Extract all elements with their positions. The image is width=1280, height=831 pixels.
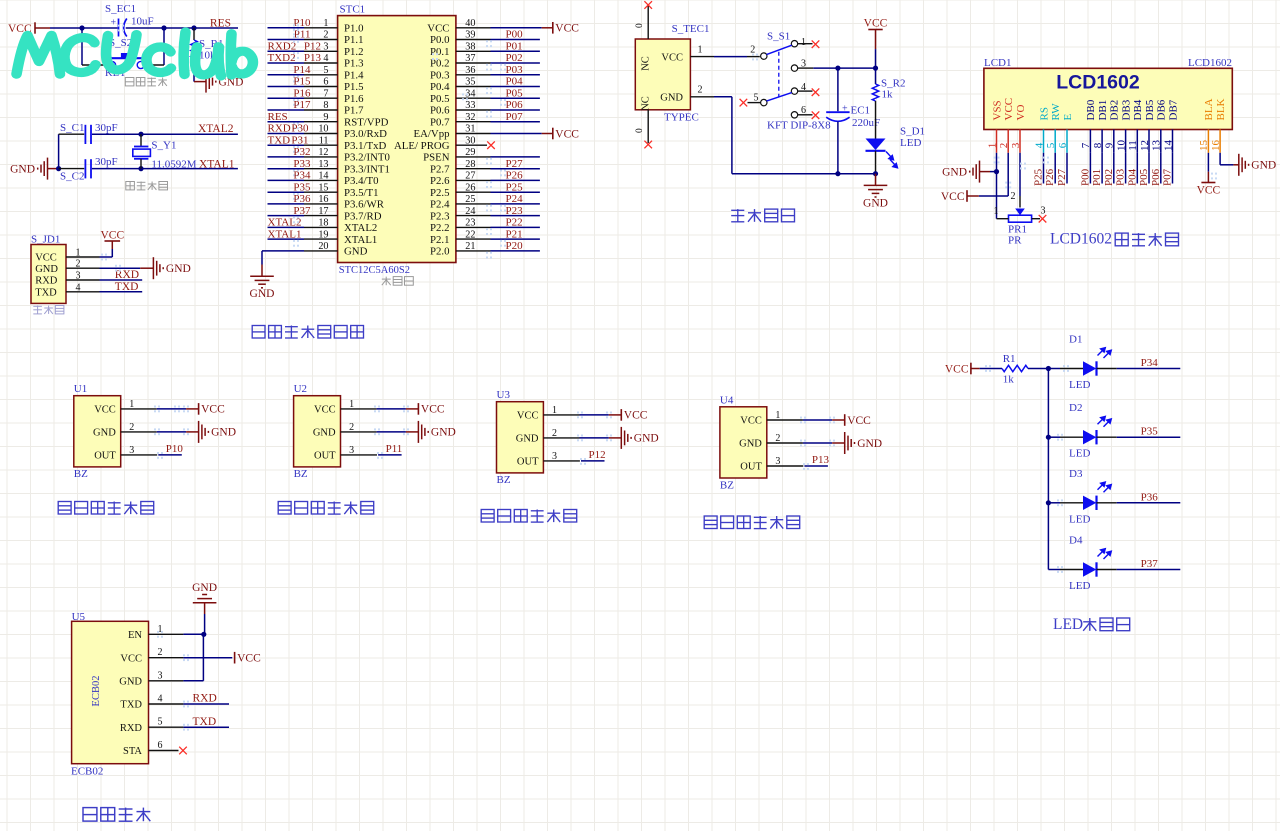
svg-text:VCC: VCC xyxy=(555,128,579,140)
resistor S_R2 xyxy=(872,68,878,138)
svg-text:LED: LED xyxy=(1069,513,1090,525)
junction xyxy=(1046,435,1051,440)
LCD pin 1 stub xyxy=(996,130,998,153)
svg-text:VCC: VCC xyxy=(517,411,539,422)
svg-text:P0.7: P0.7 xyxy=(430,116,450,128)
LED D1 xyxy=(1083,348,1111,376)
svg-text:P05: P05 xyxy=(506,87,524,99)
svg-text:DB4: DB4 xyxy=(1132,99,1144,120)
power port VCC xyxy=(552,22,554,34)
svg-text:P04: P04 xyxy=(506,76,524,88)
junction xyxy=(835,66,840,71)
svg-text:OUT: OUT xyxy=(314,451,336,462)
circuit title danpianji zuixiao xitong xyxy=(252,326,363,339)
svg-text:KFT DIP-8X8: KFT DIP-8X8 xyxy=(767,120,831,132)
label hongwai bizhang mokuai U2 xyxy=(278,502,374,515)
svg-text:10uF: 10uF xyxy=(131,16,154,28)
wire MCU pin 16 xyxy=(268,203,338,205)
svg-text:DB1: DB1 xyxy=(1097,100,1109,121)
circuit title LED deng dianlu xyxy=(1053,616,1130,633)
wire MCU pin 23 xyxy=(456,226,540,228)
junction xyxy=(138,132,143,137)
wire pin3 RXD xyxy=(66,279,142,281)
svg-text:VCC: VCC xyxy=(427,23,449,35)
svg-text:P1.3: P1.3 xyxy=(344,58,364,70)
capacitor S_EC1 polarized body xyxy=(111,18,127,37)
svg-text:TXD: TXD xyxy=(268,134,291,146)
wire MCU pin 9 xyxy=(268,121,338,123)
svg-text:BLA: BLA xyxy=(1203,98,1215,120)
wire LED D3 to P36 xyxy=(1097,502,1181,504)
svg-text:P0.6: P0.6 xyxy=(430,105,450,117)
svg-text:RXD: RXD xyxy=(268,123,291,135)
svg-text:GND: GND xyxy=(250,288,275,300)
svg-text:RS: RS xyxy=(1038,107,1050,120)
svg-text:S_C1: S_C1 xyxy=(60,122,84,134)
svg-text:P00: P00 xyxy=(1079,168,1091,186)
wire pin2 to GND xyxy=(66,267,153,269)
power port VCC xyxy=(198,403,200,415)
svg-text:P24: P24 xyxy=(506,193,524,205)
wire MCU pin 15 xyxy=(268,191,338,193)
svg-text:P1.4: P1.4 xyxy=(344,70,364,82)
svg-text:S_C2: S_C2 xyxy=(60,171,84,183)
svg-text:VCC: VCC xyxy=(100,230,124,242)
svg-text:0: 0 xyxy=(635,23,645,28)
LCD pin 6 stub xyxy=(1066,130,1068,153)
ground xyxy=(199,421,209,443)
svg-text:P22: P22 xyxy=(506,217,523,229)
svg-text:DB3: DB3 xyxy=(1120,99,1132,120)
wire MCU pin 35 xyxy=(456,86,540,88)
power port VCC (download) xyxy=(100,230,124,250)
svg-text:EA/Vpp: EA/Vpp xyxy=(414,128,450,140)
svg-text:XTAL2: XTAL2 xyxy=(268,217,302,229)
wire U3 pin3 P12 xyxy=(543,460,604,462)
svg-text:TXD: TXD xyxy=(120,700,142,711)
svg-text:P0.4: P0.4 xyxy=(430,81,450,93)
LED S_D1 xyxy=(866,139,898,174)
svg-text:1k: 1k xyxy=(882,89,894,101)
wire MCU pin 20 to ground xyxy=(262,251,338,276)
LCD pin 4 stub xyxy=(1043,130,1045,153)
svg-text:P37: P37 xyxy=(293,205,311,217)
wire LCD P00 xyxy=(1089,153,1091,184)
svg-text:GND: GND xyxy=(1251,160,1276,172)
label lanya mokuai xyxy=(83,808,150,822)
comment text anjian fuwei xyxy=(125,78,167,86)
wire MCU pin 12 xyxy=(268,156,338,158)
svg-text:LED: LED xyxy=(1069,448,1090,460)
wire LCD BLK to ground xyxy=(1220,153,1239,165)
power port VCC xyxy=(844,414,846,426)
svg-text:P30: P30 xyxy=(291,123,309,135)
connector S_TEC1 pin names xyxy=(641,52,684,110)
svg-text:P23: P23 xyxy=(506,205,524,217)
svg-text:P03: P03 xyxy=(506,64,524,76)
no-ERC marker xyxy=(644,141,652,149)
svg-text:P06: P06 xyxy=(1150,168,1162,186)
wire to LED D2 xyxy=(1048,436,1083,438)
wire MCU pin 19 xyxy=(268,238,338,240)
svg-text:P1.5: P1.5 xyxy=(344,81,364,93)
ground (LCD) xyxy=(970,161,980,183)
svg-text:3: 3 xyxy=(1041,206,1046,217)
svg-text:GND: GND xyxy=(10,163,35,175)
svg-text:P2.2: P2.2 xyxy=(430,222,450,234)
no-ERC marker pin5 xyxy=(740,99,748,107)
svg-text:P14: P14 xyxy=(293,64,311,76)
junction xyxy=(161,25,166,30)
svg-text:GND: GND xyxy=(35,264,58,275)
svg-text:ECB02: ECB02 xyxy=(91,676,102,707)
wire MCU pin 18 xyxy=(268,226,338,228)
svg-text:P25: P25 xyxy=(1033,168,1045,186)
svg-text:6: 6 xyxy=(158,740,163,751)
wire MCU pin 14 xyxy=(268,179,338,181)
svg-text:LED: LED xyxy=(1053,616,1083,633)
svg-text:LED: LED xyxy=(1069,379,1090,391)
module U2 body xyxy=(294,396,341,467)
svg-text:P31: P31 xyxy=(291,134,308,146)
svg-text:P1.2: P1.2 xyxy=(344,46,364,58)
svg-text:P05: P05 xyxy=(1138,168,1150,186)
wire to push button right xyxy=(145,28,165,65)
wire LCD VSS to ground xyxy=(980,153,997,219)
LCD pin 10 stub xyxy=(1125,130,1127,153)
wire LCD VO pin3 to potentiometer xyxy=(1011,153,1021,208)
label hongwai bizhang mokuai U4 xyxy=(704,516,800,529)
svg-text:GND: GND xyxy=(863,197,888,209)
power port VCC xyxy=(417,403,419,415)
svg-text:VCC: VCC xyxy=(847,415,871,427)
svg-text:P12: P12 xyxy=(304,41,321,53)
svg-text:P3.2/INT0: P3.2/INT0 xyxy=(344,152,390,164)
no-ERC marker U5 pin6 xyxy=(179,747,187,755)
wire MCU pin 6 xyxy=(268,86,338,88)
svg-text:P01: P01 xyxy=(506,41,523,53)
svg-text:1: 1 xyxy=(801,37,806,48)
wire to push button left xyxy=(82,28,108,65)
no-ERC marker pin4 xyxy=(812,88,820,96)
wire LCD P07 xyxy=(1172,153,1174,184)
circuit title dianyuan dianlu xyxy=(731,209,794,222)
LCD pin 12 stub xyxy=(1148,130,1150,153)
svg-text:P36: P36 xyxy=(293,193,311,205)
svg-text:D1: D1 xyxy=(1069,334,1082,346)
power port VCC (LED circuit) xyxy=(945,363,980,376)
wire U5 GND trunk xyxy=(203,614,204,681)
svg-text:0: 0 xyxy=(635,128,645,133)
svg-text:RXD: RXD xyxy=(115,269,139,281)
svg-text:LCD1: LCD1 xyxy=(984,57,1012,69)
svg-text:VCC: VCC xyxy=(740,416,762,427)
svg-text:P2.6: P2.6 xyxy=(430,175,450,187)
svg-text:1: 1 xyxy=(158,624,163,635)
junction xyxy=(191,25,196,30)
svg-text:P1.7: P1.7 xyxy=(344,105,364,117)
svg-text:VCC: VCC xyxy=(1003,98,1015,121)
svg-text:BZ: BZ xyxy=(497,474,511,486)
ground (reset) xyxy=(194,71,243,93)
module U5 body xyxy=(72,621,149,763)
svg-text:BLK: BLK xyxy=(1215,98,1227,120)
circuit title LCD1602 xianshi dianlu xyxy=(1050,231,1179,248)
svg-text:BZ: BZ xyxy=(74,468,88,480)
svg-text:VCC: VCC xyxy=(864,18,888,30)
svg-text:VCC: VCC xyxy=(661,52,683,63)
svg-text:P10: P10 xyxy=(293,17,311,29)
svg-text:VCC: VCC xyxy=(237,653,261,665)
no-ERC marker pin1 xyxy=(812,40,820,48)
svg-text:VCC: VCC xyxy=(120,653,142,664)
svg-text:GND: GND xyxy=(660,93,683,104)
wire MCU pin 1 xyxy=(268,27,338,29)
ground (crystal) xyxy=(10,158,59,180)
svg-text:P3.4/T0: P3.4/T0 xyxy=(344,175,379,187)
ground (U5) xyxy=(192,582,217,614)
wire LED D4 to P37 xyxy=(1097,569,1181,571)
svg-text:1k: 1k xyxy=(1003,374,1015,386)
junction xyxy=(1046,366,1051,371)
svg-text:PR: PR xyxy=(1008,235,1022,247)
svg-text:VCC: VCC xyxy=(1197,185,1221,197)
svg-text:GND: GND xyxy=(942,166,967,178)
svg-text:TXD: TXD xyxy=(115,281,139,293)
wire MCU pin 27 xyxy=(456,179,540,181)
wire MCU pin 31 to VCC xyxy=(456,133,553,135)
svg-text:VCC: VCC xyxy=(314,405,336,416)
svg-text:U4: U4 xyxy=(720,394,734,406)
wire MCU pin 21 xyxy=(456,250,540,252)
svg-text:1: 1 xyxy=(698,45,703,56)
svg-text:P21: P21 xyxy=(506,228,523,240)
wire LCD P02 xyxy=(1113,153,1115,184)
svg-text:5: 5 xyxy=(158,717,163,728)
svg-text:STC1: STC1 xyxy=(340,4,366,16)
svg-text:P02: P02 xyxy=(506,52,523,64)
ground (LCD backlight) xyxy=(1239,154,1249,176)
svg-text:GND: GND xyxy=(192,582,217,594)
wire MCU pin 13 xyxy=(268,168,338,170)
push button S_S2 xyxy=(108,53,144,69)
junction xyxy=(835,171,840,176)
wire switch pin3 to VCC rail xyxy=(798,67,876,69)
no-ERC marker pin6 xyxy=(812,111,820,119)
svg-text:+: + xyxy=(111,18,117,29)
wire U3 pin1 to VCC xyxy=(543,414,621,416)
resistor R1 xyxy=(980,365,1049,371)
LCD pin 13 stub xyxy=(1160,130,1162,153)
svg-text:BZ: BZ xyxy=(720,479,734,491)
svg-text:S_EC1: S_EC1 xyxy=(105,3,136,15)
wire U1 pin3 P10 xyxy=(121,454,182,456)
svg-text:ALE/ PROG: ALE/ PROG xyxy=(394,140,450,152)
svg-text:S_JD1: S_JD1 xyxy=(31,234,60,246)
wire MCU pin 22 xyxy=(456,238,540,240)
svg-text:P3.0/RxD: P3.0/RxD xyxy=(344,128,387,140)
svg-text:P1.0: P1.0 xyxy=(344,23,364,35)
svg-text:LCD1602: LCD1602 xyxy=(1188,57,1232,69)
svg-text:P27: P27 xyxy=(1056,168,1068,186)
wire MCU pin 2 xyxy=(268,39,338,41)
wire MCU pin 5 xyxy=(268,74,338,76)
wire MCU pin 40 to VCC xyxy=(456,27,553,29)
wire U1 pin1 to VCC xyxy=(121,408,199,410)
svg-text:RST/VPD: RST/VPD xyxy=(344,116,389,128)
power port VCC xyxy=(552,128,554,140)
svg-text:30pF: 30pF xyxy=(95,156,118,168)
svg-text:GND: GND xyxy=(313,428,336,439)
svg-text:P13: P13 xyxy=(812,454,830,466)
wire MCU pin 24 xyxy=(456,215,540,217)
ground xyxy=(845,432,855,454)
ground xyxy=(418,421,428,443)
svg-text:GND: GND xyxy=(739,439,762,450)
wire U5 pin5 RXD xyxy=(149,726,230,728)
wire MCU pin 34 xyxy=(456,97,540,99)
LCD pin 7 stub xyxy=(1089,130,1091,153)
svg-text:P0.3: P0.3 xyxy=(430,70,450,82)
svg-text:DB2: DB2 xyxy=(1109,100,1121,121)
label hongwai bizhang mokuai U1 xyxy=(58,502,154,515)
wire U2 pin2 to GND xyxy=(341,431,419,433)
svg-text:P3.5/T1: P3.5/T1 xyxy=(344,187,379,199)
svg-text:P0.0: P0.0 xyxy=(430,34,450,46)
svg-text:DB5: DB5 xyxy=(1144,99,1156,120)
connector S_TEC1 top pin xyxy=(635,6,648,39)
svg-text:11.0592M: 11.0592M xyxy=(151,159,196,171)
LCD pin 14 stub xyxy=(1172,130,1174,153)
wire MCU pin 26 xyxy=(456,191,540,193)
ground (download) xyxy=(153,257,163,279)
svg-text:P02: P02 xyxy=(1103,169,1115,186)
svg-text:P0.1: P0.1 xyxy=(430,46,450,58)
svg-text:TXD: TXD xyxy=(35,287,57,298)
svg-text:P3.7/RD: P3.7/RD xyxy=(344,210,382,222)
svg-text:D3: D3 xyxy=(1069,468,1083,480)
wire RES net top xyxy=(50,27,238,29)
resistor S_R1 xyxy=(191,28,197,82)
LCD pin 3 stub xyxy=(1019,130,1021,153)
svg-text:1: 1 xyxy=(994,206,999,217)
svg-text:GND: GND xyxy=(344,246,368,258)
svg-text:XTAL1: XTAL1 xyxy=(344,234,377,246)
svg-text:P06: P06 xyxy=(506,99,524,111)
svg-text:P2.3: P2.3 xyxy=(430,210,450,222)
power port VCC (U5) xyxy=(234,652,236,664)
svg-text:P1.1: P1.1 xyxy=(344,34,364,46)
power port VCC (reset circuit) xyxy=(8,22,50,35)
svg-text:XTAL1: XTAL1 xyxy=(199,159,235,171)
svg-text:P0.5: P0.5 xyxy=(430,93,450,105)
svg-text:OUT: OUT xyxy=(517,457,539,468)
svg-text:PSEN: PSEN xyxy=(423,152,450,164)
wire LCD P25 xyxy=(1043,153,1045,184)
svg-text:TYPEC: TYPEC xyxy=(664,112,699,124)
svg-text:STA: STA xyxy=(123,746,142,757)
svg-text:GND: GND xyxy=(211,427,236,439)
junction xyxy=(201,632,206,637)
svg-text:LCD1602: LCD1602 xyxy=(1050,231,1112,248)
svg-text:VO: VO xyxy=(1015,105,1027,121)
wire MCU pin 3 xyxy=(268,50,338,52)
svg-text:P37: P37 xyxy=(1141,558,1159,570)
wire LCD BLA to VCC xyxy=(1197,153,1221,197)
junction xyxy=(56,166,61,171)
connector S_TEC1 body xyxy=(635,39,690,110)
wire LED trunk xyxy=(1047,369,1049,570)
wire MCU pin 32 xyxy=(456,121,540,123)
svg-text:P17: P17 xyxy=(293,99,311,111)
wire U4 pin3 P13 xyxy=(767,465,828,467)
svg-text:P3.1/TxD: P3.1/TxD xyxy=(344,140,386,152)
svg-text:D4: D4 xyxy=(1069,535,1083,547)
wire LED D1 to P34 xyxy=(1097,368,1181,370)
junction xyxy=(873,171,878,176)
ground xyxy=(621,427,631,449)
svg-text:P26: P26 xyxy=(506,170,524,182)
power port VCC xyxy=(620,409,622,421)
svg-text:LED: LED xyxy=(900,137,921,149)
svg-text:VCC: VCC xyxy=(945,363,969,375)
svg-text:OUT: OUT xyxy=(740,462,762,473)
svg-text:P07: P07 xyxy=(506,111,524,123)
potentiometer PR1 xyxy=(994,206,1046,223)
svg-text:E: E xyxy=(1062,114,1074,121)
svg-text:P1.6: P1.6 xyxy=(344,93,364,105)
svg-text:P33: P33 xyxy=(293,158,311,170)
wire MCU pin 4 xyxy=(268,62,338,64)
svg-text:5: 5 xyxy=(754,93,759,104)
wire LCD P04 xyxy=(1136,153,1138,184)
svg-text:DB6: DB6 xyxy=(1156,99,1168,120)
wire LCD P05 xyxy=(1148,153,1150,184)
svg-text:EN: EN xyxy=(128,630,142,641)
no-ERC marker xyxy=(487,141,495,149)
wire MCU pin 28 xyxy=(456,168,540,170)
svg-text:RXD: RXD xyxy=(35,276,58,287)
ground (MCU) xyxy=(250,276,274,288)
svg-text:P34: P34 xyxy=(1141,357,1159,369)
no-ERC marker PR1 pin3 xyxy=(1039,215,1047,223)
junction xyxy=(79,25,84,30)
label hongwai bizhang mokuai U3 xyxy=(481,510,577,523)
svg-text:U2: U2 xyxy=(294,383,307,395)
wire U4 pin1 to VCC xyxy=(767,419,845,421)
svg-text:R1: R1 xyxy=(1003,353,1016,365)
svg-text:NC: NC xyxy=(641,56,652,71)
svg-text:EC1: EC1 xyxy=(851,105,871,117)
LED D2 xyxy=(1083,416,1111,444)
svg-text:P01: P01 xyxy=(1091,169,1103,186)
wire U5 pin4 TXD xyxy=(149,703,230,705)
svg-text:RXD: RXD xyxy=(193,693,217,705)
LCD pin 5 stub xyxy=(1054,130,1056,153)
compile marks xyxy=(101,24,1217,730)
svg-text:P13: P13 xyxy=(304,52,322,64)
wire MCU pin 7 xyxy=(268,97,338,99)
LCD pin 9 stub xyxy=(1113,130,1115,153)
svg-text:TXD: TXD xyxy=(193,716,217,728)
wire LCD P26 xyxy=(1054,153,1056,184)
svg-text:GND: GND xyxy=(431,427,456,439)
svg-text:2: 2 xyxy=(1011,191,1016,202)
svg-text:30pF: 30pF xyxy=(95,122,118,134)
svg-text:GND: GND xyxy=(857,438,882,450)
wire U1 pin2 to GND xyxy=(121,431,199,433)
svg-text:P12: P12 xyxy=(589,449,606,461)
